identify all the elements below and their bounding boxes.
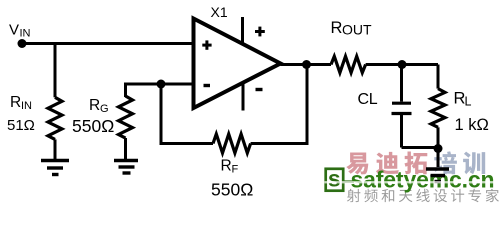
- wire RG to ground: [124, 138, 127, 159]
- watermark char 和: [382, 189, 395, 202]
- watermark char 训: [463, 152, 485, 175]
- label RG: [89, 97, 109, 115]
- watermark char 天: [399, 190, 412, 202]
- resistor RIN: [48, 97, 62, 139]
- wire VIN to op-amp plus input: [22, 42, 194, 45]
- ground RG: [114, 161, 138, 174]
- watermark char 拓: [405, 152, 428, 175]
- resistor ROUT: [331, 56, 366, 72]
- svg-text:F: F: [232, 164, 239, 176]
- watermark char 设: [434, 189, 447, 202]
- watermark char 频: [364, 189, 378, 202]
- watermark char 家: [486, 189, 499, 202]
- node VIN junction dot: [18, 39, 27, 48]
- capacitor CL top lead: [400, 65, 403, 102]
- wire CL bottom to RL bottom: [402, 146, 439, 149]
- node minus junction dot: [157, 80, 166, 89]
- svg-text:CL: CL: [358, 91, 378, 108]
- watermark char 计: [451, 189, 464, 202]
- svg-text:1 kΩ: 1 kΩ: [455, 116, 489, 134]
- svg-text:V: V: [9, 22, 19, 39]
- node RL bottom junction dot: [434, 144, 443, 153]
- wire feedback down and to RF: [161, 84, 213, 144]
- svg-text:R: R: [331, 19, 343, 37]
- svg-text:OUT: OUT: [342, 22, 372, 38]
- svg-text:L: L: [465, 95, 472, 109]
- wire RIN to ground: [54, 139, 57, 159]
- watermark char 专: [468, 189, 481, 202]
- wire ROUT to load node: [366, 63, 438, 66]
- ground load: [426, 169, 449, 182]
- label RF: [221, 158, 239, 176]
- wire RL to bottom node: [437, 127, 440, 148]
- op-amp plus input sign: [202, 40, 211, 49]
- label RL: [454, 90, 472, 109]
- wire RG top to minus node: [126, 84, 162, 97]
- node load junction dot: [398, 60, 407, 69]
- node output junction dot: [302, 60, 311, 69]
- svg-text:R: R: [221, 158, 232, 175]
- wire load node down to RL: [437, 65, 440, 89]
- wire bottom node to ground: [437, 149, 440, 168]
- svg-text:550Ω: 550Ω: [211, 179, 253, 199]
- svg-text:safetyemc.cn: safetyemc.cn: [351, 167, 495, 193]
- svg-text:51Ω: 51Ω: [7, 117, 35, 134]
- node VIN label: [9, 22, 31, 40]
- svg-text:IN: IN: [21, 100, 32, 112]
- watermark char 射: [347, 189, 361, 202]
- resistor RG: [119, 96, 133, 138]
- watermark logo green box: [326, 169, 344, 191]
- op-amp minus input sign: [204, 84, 211, 87]
- wire RF to output riser: [251, 65, 307, 144]
- svg-text:550Ω: 550Ω: [72, 116, 114, 136]
- wire op-amp output: [281, 63, 332, 66]
- ground RIN: [41, 161, 69, 175]
- svg-text:R: R: [89, 97, 100, 114]
- svg-text:IN: IN: [20, 28, 31, 40]
- power rail bottom: [242, 83, 245, 111]
- watermark char 线: [416, 189, 429, 202]
- svg-text:R: R: [10, 94, 21, 111]
- op-amp X1 triangle: [194, 19, 281, 109]
- watermark hyphen: [345, 180, 355, 183]
- power rail top: [241, 17, 244, 44]
- label RIN: [10, 94, 32, 112]
- wire minus node to op-amp minus input: [161, 83, 194, 86]
- power plus sign: [255, 27, 265, 37]
- label ROUT: [331, 19, 373, 38]
- svg-text:X1: X1: [211, 4, 228, 20]
- watermark char 易: [346, 153, 368, 175]
- capacitor CL plates: [392, 103, 412, 113]
- watermark light stripe: [325, 181, 500, 183]
- watermark char 培: [434, 151, 457, 174]
- resistor RF: [213, 134, 251, 153]
- resistor RL: [431, 89, 445, 128]
- svg-text:G: G: [100, 103, 109, 115]
- watermark char 迪: [376, 152, 399, 175]
- power minus sign: [256, 88, 263, 91]
- svg-text:s: s: [328, 166, 341, 192]
- capacitor CL bottom lead: [400, 114, 403, 148]
- wire drop to RIN: [54, 44, 57, 98]
